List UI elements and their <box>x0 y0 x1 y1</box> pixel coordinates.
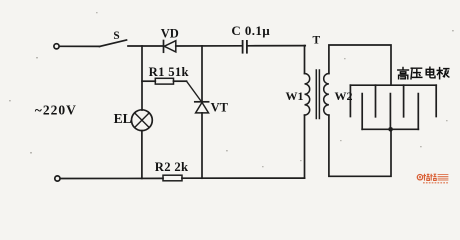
lamp EL bottom lead <box>141 131 143 179</box>
electrode up tooth 2 <box>389 94 391 130</box>
wire capacitor to transformer <box>247 45 305 47</box>
resistor R1 body <box>155 78 173 84</box>
bottom wire R2 to W1 <box>182 177 305 179</box>
resistor R2 body <box>163 175 182 181</box>
wire switch to diode <box>128 45 164 47</box>
svg-text:EL: EL <box>114 111 132 126</box>
char ya <box>411 68 422 79</box>
thyristor VT cathode bar <box>195 101 209 103</box>
W2 bottom lead and wire to electrode return <box>329 115 391 176</box>
capacitor C plates <box>242 41 244 53</box>
electrode up tooth 3 <box>417 94 419 130</box>
wire branch down to R1/EL node <box>141 46 143 110</box>
wire branch down to VT anode <box>201 46 203 102</box>
resistor R1 right lead <box>174 80 187 82</box>
electrode up tooth 1 <box>361 94 363 130</box>
electrode down tooth 1 <box>349 85 351 116</box>
svg-text:VT: VT <box>211 100 229 114</box>
watermark bold chars <box>423 174 436 181</box>
transformer W1 bottom lead <box>304 115 306 178</box>
svg-text:C 0.1µ: C 0.1µ <box>231 23 270 38</box>
svg-text:~220V: ~220V <box>35 102 77 117</box>
transformer T primary W1 top lead <box>304 46 306 74</box>
watermark small text block <box>438 175 449 180</box>
watermark bottom tiny row <box>423 182 449 184</box>
scan speckles <box>9 12 454 167</box>
lamp EL cross <box>135 113 150 128</box>
junction dot electrode <box>388 127 393 132</box>
diode VD triangle <box>164 41 176 52</box>
svg-text:S: S <box>113 30 119 42</box>
wire top from terminal to switch pivot <box>60 45 100 47</box>
char dian <box>426 69 433 74</box>
char ji <box>437 68 442 79</box>
watermark logo circle <box>417 175 422 180</box>
svg-text:R1 51k: R1 51k <box>149 65 190 79</box>
svg-text:W1: W1 <box>286 89 304 103</box>
switch S blade <box>100 40 127 47</box>
label gao ya dian ji (high voltage electrode) hand-drawn glyphs <box>398 67 449 79</box>
transformer core <box>315 70 317 119</box>
resistor R1 left lead <box>142 80 155 82</box>
svg-text:VD: VD <box>161 26 179 40</box>
electrode down tooth 4 <box>435 85 437 116</box>
lamp EL circle <box>132 110 153 131</box>
electrode down tooth 2 <box>375 85 377 117</box>
electrode bottom bar <box>362 128 418 130</box>
W2 top lead and wire to electrode feed <box>329 45 391 85</box>
transformer W1 winding <box>305 74 310 116</box>
thyristor VT cathode lead down <box>201 113 203 178</box>
terminal bottom-left <box>55 176 60 181</box>
electrode down tooth 3 <box>403 85 405 117</box>
transformer secondary W2 winding <box>324 74 329 116</box>
svg-text:R2 2k: R2 2k <box>155 160 189 174</box>
wire diode to capacitor <box>176 45 242 47</box>
terminal top-left <box>54 44 59 49</box>
svg-text:T: T <box>312 34 320 46</box>
svg-text:W2: W2 <box>335 89 353 103</box>
char gao <box>402 68 404 70</box>
thyristor VT triangle <box>196 102 209 113</box>
bottom wire terminal to R2 <box>60 177 163 179</box>
diode VD cathode bar <box>163 41 165 53</box>
electrode top bar <box>350 84 436 86</box>
VT gate wire <box>187 81 202 101</box>
